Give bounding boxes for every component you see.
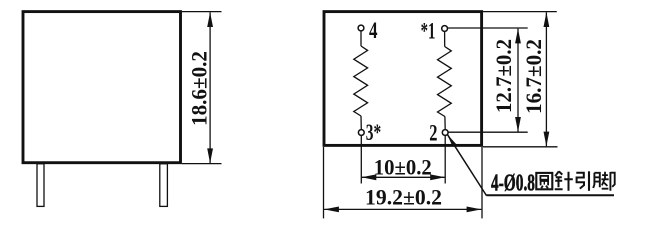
svg-text:3*: 3* <box>366 120 381 145</box>
leader note CJK char 圆 <box>536 173 552 189</box>
extension line down from pin 2 (10 dim) <box>444 136 446 184</box>
pin lead left (side view) <box>37 164 44 207</box>
leader note CJK char 引 <box>576 171 589 191</box>
dimension line 18.6 with arrows <box>207 12 213 163</box>
dimension line 16.7 with arrows <box>544 12 550 146</box>
svg-text:4: 4 <box>369 18 378 43</box>
extension line bottom (18.6 dim) <box>182 163 222 165</box>
leader note CJK char 脚 <box>593 172 615 191</box>
wire pin4 to winding W1 <box>360 31 362 46</box>
wire winding W2 to pin2 <box>444 117 446 130</box>
pin 3 terminal <box>358 130 364 136</box>
dimension line 12.7 with arrows <box>515 29 521 132</box>
leader line from pin 2 <box>447 134 486 195</box>
svg-text:12.7±0.2: 12.7±0.2 <box>491 39 516 113</box>
leader note CJK char 针 <box>555 171 573 191</box>
winding W1 (primary, pins 4-3) <box>354 46 368 116</box>
extension line top (18.6 dim) <box>182 11 222 13</box>
pin 4 terminal <box>358 25 364 31</box>
svg-text:2: 2 <box>429 120 437 145</box>
leader arrowhead at pin 2 <box>447 134 456 146</box>
pin 2 terminal <box>442 130 448 136</box>
wire pin1 to winding W2 <box>444 31 446 46</box>
extension line from box top (16.7 dim) <box>483 11 557 13</box>
extension line from pin 1 (12.7 dim top) <box>448 27 528 29</box>
svg-text:4-Ø0.8: 4-Ø0.8 <box>491 171 535 197</box>
pin lead right (side view) <box>160 164 168 207</box>
extension line from pin 2 (12.7 dim bottom) <box>448 131 527 133</box>
dimension line 19.2 with arrows <box>324 207 481 213</box>
transformer body T1 (side view) <box>23 12 181 163</box>
extension line from box bottom (16.7 dim) <box>483 146 558 148</box>
extension line down from pin 3 (10 dim) <box>360 135 362 183</box>
svg-text:10±0.2: 10±0.2 <box>374 155 432 180</box>
winding W2 (secondary, pins 1-2) <box>438 47 452 117</box>
leader underline <box>487 194 615 196</box>
extension line down from box right (19.2 dim) <box>481 147 483 218</box>
dimension line 10 with arrows <box>362 174 446 180</box>
svg-text:16.7±0.2: 16.7±0.2 <box>521 39 546 114</box>
pin 1 terminal <box>442 26 448 32</box>
extension line down from box left (19.2 dim) <box>323 147 325 218</box>
transformer outline (bottom view) <box>324 12 482 146</box>
svg-text:18.6±0.2: 18.6±0.2 <box>187 51 212 126</box>
svg-text:*1: *1 <box>421 18 436 43</box>
wire winding W1 to pin3 <box>360 116 362 130</box>
svg-text:19.2±0.2: 19.2±0.2 <box>365 185 442 210</box>
